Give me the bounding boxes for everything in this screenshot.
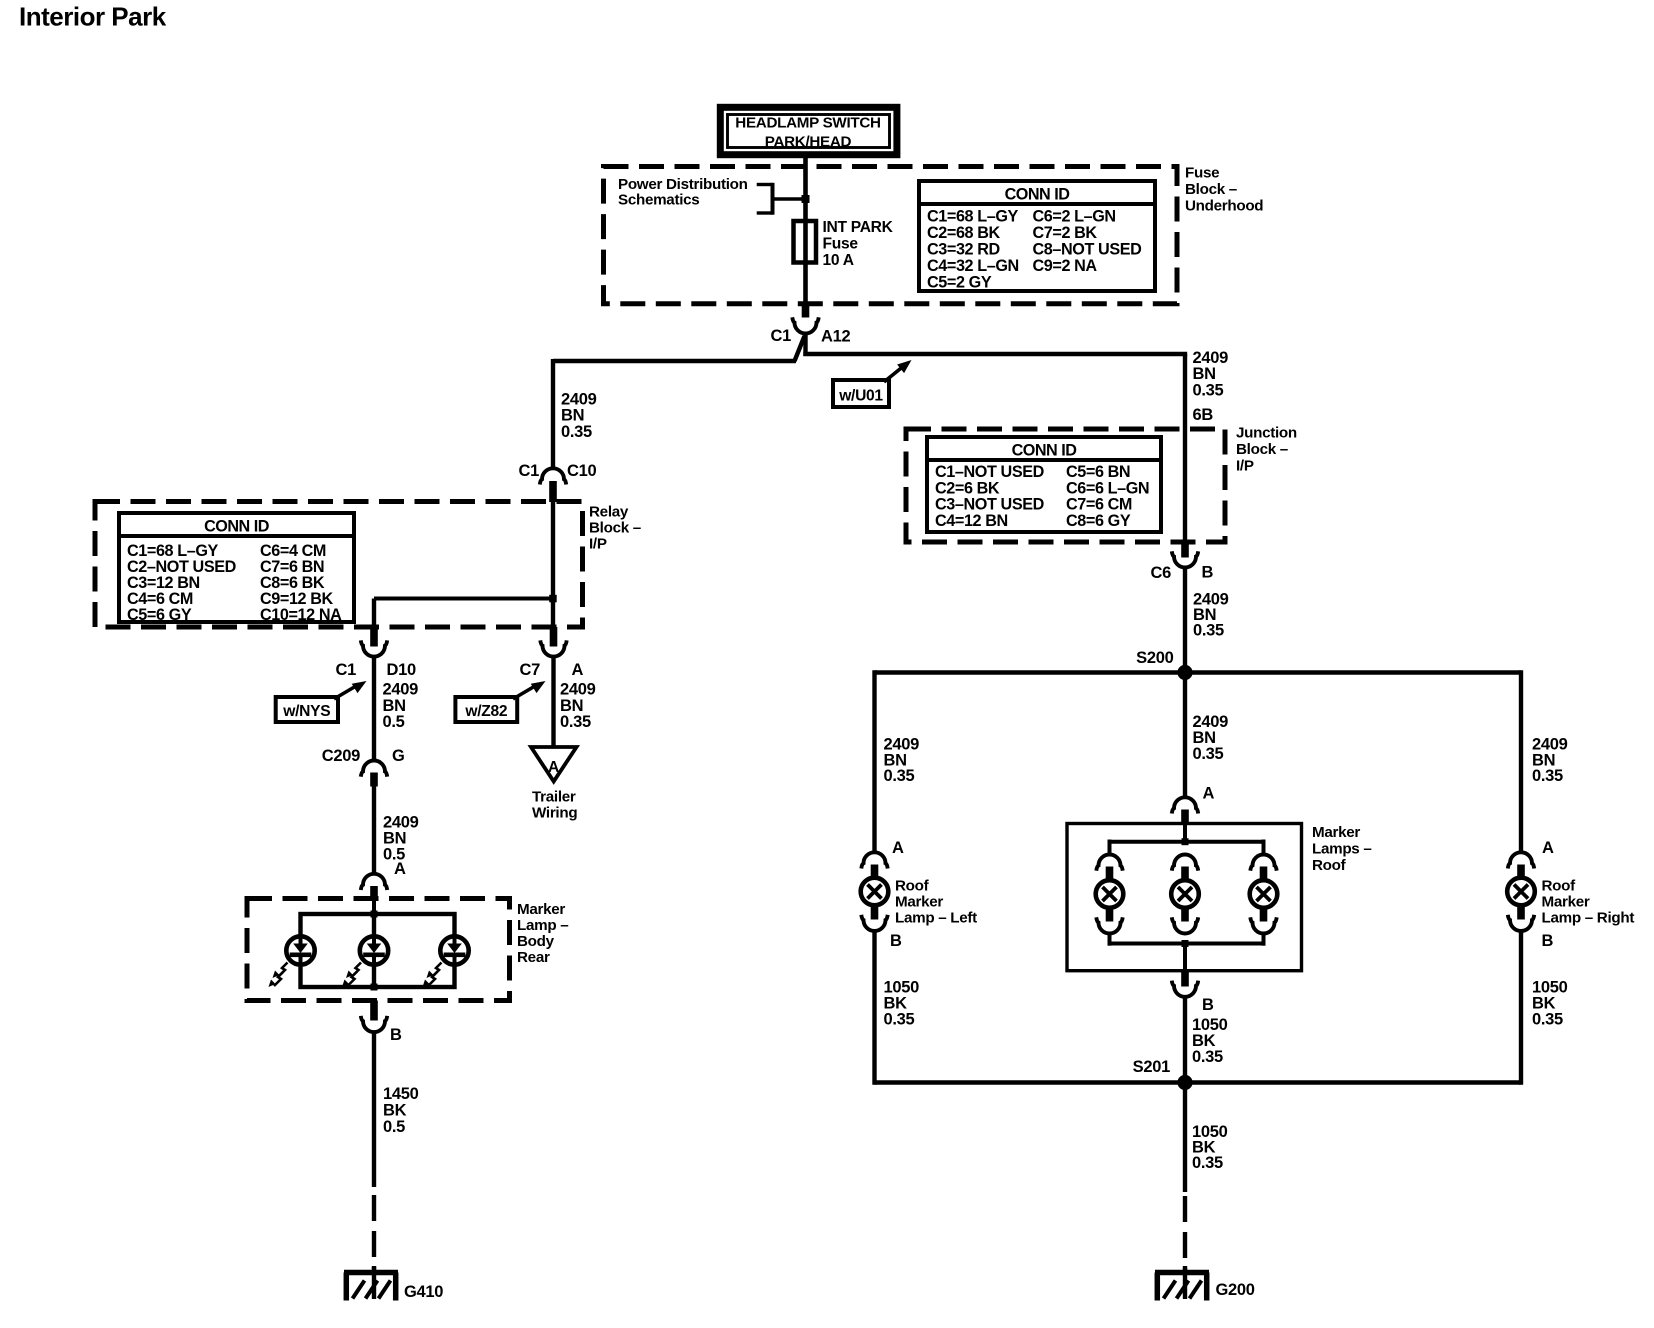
wire: S201 to ground lead (1183, 1083, 1187, 1193)
svg-text:I/P: I/P (1236, 458, 1254, 475)
wire: left roof lamp to S201 bus (872, 931, 876, 1085)
node: body rear bottom junction (371, 984, 378, 991)
wire label 2409 BN 0.35 (right roof branch) (1532, 736, 1568, 786)
connector B (body rear, socket arc) (361, 1016, 402, 1044)
wire: dashed ground lead (G200) (1183, 1196, 1187, 1271)
svg-text:Block –: Block – (1236, 441, 1288, 458)
wire label 2409 BN 0.35 (A12 to junction block) (1193, 349, 1229, 400)
wire: C6/B to S200 (1183, 568, 1187, 674)
svg-text:PARK/HEAD: PARK/HEAD (765, 134, 852, 151)
svg-text:C2=6 BK: C2=6 BK (935, 479, 1000, 497)
svg-text:0.35: 0.35 (1193, 745, 1224, 763)
svg-text:Power Distribution: Power Distribution (618, 176, 748, 193)
svg-text:Marker: Marker (1542, 894, 1590, 911)
svg-text:0.35: 0.35 (1193, 622, 1224, 640)
svg-text:HEADLAMP SWITCH: HEADLAMP SWITCH (735, 115, 880, 132)
svg-text:0.5: 0.5 (383, 1118, 405, 1136)
svg-text:Fuse: Fuse (1185, 165, 1219, 182)
svg-text:0.35: 0.35 (884, 1011, 915, 1029)
svg-text:C9=2 NA: C9=2 NA (1033, 257, 1098, 275)
svg-text:CONN ID: CONN ID (1012, 442, 1078, 460)
svg-text:w/Z82: w/Z82 (464, 703, 507, 720)
wire label 1050 BK 0.35 (left) (884, 979, 920, 1029)
wire label 2409 BN 0.35 (middle branch) (1193, 713, 1229, 763)
connector B (marker lamps roof, pin stub) (1181, 971, 1189, 987)
splice S200 (1136, 649, 1192, 680)
svg-text:A: A (1542, 839, 1554, 857)
svg-text:Wiring: Wiring (532, 805, 577, 822)
svg-text:BK: BK (383, 1102, 407, 1120)
connector A (marker lamps roof) (1172, 785, 1215, 825)
svg-text:C5=6 GY: C5=6 GY (127, 606, 192, 624)
svg-text:0.35: 0.35 (561, 423, 592, 441)
svg-text:S200: S200 (1136, 649, 1173, 667)
relay block - I/P (dashed box) (95, 502, 583, 628)
label: Relay Block - I/P (589, 504, 641, 553)
svg-text:C1: C1 (771, 327, 792, 345)
svg-text:Underhood: Underhood (1185, 198, 1263, 215)
svg-text:C5=2 GY: C5=2 GY (927, 273, 992, 291)
svg-text:0.35: 0.35 (1532, 1011, 1563, 1029)
wire: body rear internal bus rectangle (301, 900, 455, 988)
svg-text:A12: A12 (821, 328, 850, 346)
label: Marker Lamps - Roof (1312, 824, 1372, 874)
svg-text:A: A (572, 661, 584, 679)
svg-text:D10: D10 (387, 661, 416, 679)
svg-text:Junction: Junction (1236, 425, 1297, 442)
svg-text:BN: BN (1193, 365, 1216, 383)
svg-text:Block –: Block – (1185, 181, 1237, 198)
svg-text:B: B (1542, 932, 1554, 950)
pin label 6B (1193, 406, 1214, 424)
wire: C7/A to trailer wiring (551, 657, 555, 748)
lamp: marker lamps roof #1 (connector arcs + bulb) (1096, 855, 1124, 934)
svg-text:G410: G410 (404, 1283, 443, 1301)
wire: relay block internal split (374, 502, 553, 627)
svg-text:C8=6 GY: C8=6 GY (1066, 512, 1131, 530)
svg-text:Marker: Marker (895, 894, 943, 911)
wire: right roof lamp to S201 bus (1519, 931, 1523, 1085)
svg-text:Marker: Marker (1312, 824, 1360, 841)
wire: dashed ground lead (G410) (372, 1195, 376, 1271)
lamp: roof marker lamp - left (861, 878, 977, 927)
svg-text:Body: Body (517, 933, 555, 950)
wire: roof box B to S201 (1183, 997, 1187, 1083)
label: Fuse Block - Underhood (1185, 165, 1263, 215)
splice S201 (1133, 1058, 1193, 1090)
svg-text:C209: C209 (322, 747, 360, 765)
wire: right horizontal to junction block branch (803, 354, 1187, 429)
wire: C209 to marker lamp A (372, 787, 376, 875)
connector A (marker lamp body rear) (361, 860, 406, 900)
fuse: INT PARK Fuse 10 A (794, 219, 894, 303)
svg-text:A: A (892, 839, 904, 857)
svg-text:C6=6 L–GN: C6=6 L–GN (1066, 479, 1149, 497)
label: Junction Block - I/P (1236, 425, 1297, 475)
wire: D10 to C209 (372, 657, 376, 761)
svg-text:2409: 2409 (560, 681, 596, 699)
svg-text:10 A: 10 A (823, 252, 854, 269)
reference: Power Distribution Schematics (618, 176, 803, 215)
svg-text:S201: S201 (1133, 1058, 1170, 1076)
option arrow w/U01 (833, 356, 915, 407)
svg-text:Lamp –: Lamp – (517, 917, 568, 934)
svg-text:A: A (548, 759, 559, 776)
svg-text:w/U01: w/U01 (838, 388, 883, 405)
connector C6 / B (pin stub) (1181, 542, 1189, 558)
connector C209 / G (socket arc) (322, 747, 405, 777)
svg-text:C6=2 L–GN: C6=2 L–GN (1033, 208, 1116, 226)
connector C1 / C10 (pin stub) (549, 481, 557, 502)
title "Interior Park" (19, 2, 167, 32)
wire label 2409 BN 0.35 (to relay block) (561, 391, 597, 442)
svg-text:I/P: I/P (589, 536, 607, 553)
svg-text:Interior Park: Interior Park (19, 2, 167, 32)
wire: diagonal + left horizontal to relay branch (553, 336, 805, 469)
junction block - I/P (dashed box) (906, 429, 1225, 542)
connector B (marker lamps roof, socket arc) (1172, 981, 1214, 1014)
svg-text:2409: 2409 (383, 681, 419, 699)
svg-text:Rear: Rear (517, 949, 550, 966)
svg-text:0.35: 0.35 (1193, 382, 1224, 400)
option arrow w/NYS (276, 676, 370, 722)
wire: headlamp switch to fuse (803, 158, 808, 221)
svg-text:C4=32 L–GN: C4=32 L–GN (927, 257, 1019, 275)
svg-text:C3–NOT USED: C3–NOT USED (935, 496, 1045, 514)
svg-text:INT PARK: INT PARK (823, 219, 894, 236)
svg-text:Roof: Roof (1542, 878, 1577, 895)
svg-text:A: A (1203, 785, 1215, 803)
connector C6 / B (socket arc) (1151, 551, 1214, 582)
svg-text:Lamps –: Lamps – (1312, 841, 1372, 858)
svg-text:CONN ID: CONN ID (1005, 186, 1071, 204)
svg-text:0.35: 0.35 (1192, 1048, 1223, 1066)
svg-text:Roof: Roof (1312, 857, 1347, 874)
node: junction dot at feed wire (802, 195, 810, 203)
label: Marker Lamp - Body Rear (517, 901, 568, 966)
svg-text:Relay: Relay (589, 504, 629, 521)
svg-text:C7=2 BK: C7=2 BK (1033, 224, 1098, 242)
svg-text:C2=68 BK: C2=68 BK (927, 224, 1001, 242)
node: roof box bottom bus junction (1182, 940, 1189, 947)
svg-text:B: B (890, 932, 902, 950)
svg-text:C4=12 BN: C4=12 BN (935, 512, 1008, 530)
svg-text:B: B (1202, 996, 1214, 1014)
svg-text:Lamp – Left: Lamp – Left (895, 910, 977, 927)
svg-text:0.35: 0.35 (884, 767, 915, 785)
svg-text:C1=68 L–GY: C1=68 L–GY (927, 208, 1019, 226)
lamp: marker lamp body rear LED #2 (342, 936, 388, 987)
connector C1 / C10 (socket arc) (519, 462, 597, 485)
wire: body rear B to ground lead (372, 1032, 376, 1187)
lamp: roof marker lamp - right (1507, 878, 1634, 927)
wire label 2409 BN 0.5 (to body rear lamp) (383, 814, 419, 864)
svg-text:0.35: 0.35 (1192, 1154, 1223, 1172)
wire: S201 collector bus (875, 1080, 1522, 1084)
svg-text:Schematics: Schematics (618, 192, 699, 209)
node: body rear top junction (371, 911, 378, 918)
wire label 2409 BN 0.35 (C7 branch) (560, 681, 596, 732)
svg-text:A: A (394, 860, 406, 878)
svg-text:C1: C1 (519, 462, 540, 480)
svg-text:C3=32 RD: C3=32 RD (927, 241, 1001, 259)
svg-text:G: G (392, 747, 405, 765)
marker lamp - body rear (dashed box) (247, 899, 510, 1001)
connector C1 / A12 (pin stub) (802, 302, 810, 318)
lamp: marker lamps roof #3 (connector arcs + bulb) (1250, 855, 1278, 934)
connector B (roof marker lamp right) (1508, 905, 1554, 950)
component box: HEADLAMP SWITCH PARK/HEAD (720, 107, 897, 154)
svg-text:CONN ID: CONN ID (204, 518, 270, 536)
option arrow w/Z82 (455, 676, 548, 722)
connector A (roof marker lamp left) (861, 839, 904, 879)
off-page reference: Trailer Wiring (triangle A) (531, 747, 577, 822)
wire label 1450 BK 0.5 (383, 1085, 419, 1136)
lamp: marker lamp body rear LED #1 (269, 936, 315, 987)
table: CONN ID (fuse block underhood) (919, 181, 1155, 291)
svg-text:C7=6 CM: C7=6 CM (1066, 496, 1132, 514)
connector B (body rear, pin stub) (370, 1001, 378, 1021)
wire label 2409 BN 0.35 (left roof branch) (884, 736, 920, 786)
lamp: marker lamp body rear LED #3 (423, 936, 469, 987)
svg-text:C1–NOT USED: C1–NOT USED (935, 463, 1045, 481)
svg-text:Marker: Marker (517, 901, 565, 918)
node: roof box top bus junction (1182, 838, 1189, 845)
wire: S200 to marker lamps roof (1183, 673, 1187, 798)
svg-text:B: B (390, 1026, 402, 1044)
svg-text:C8–NOT USED: C8–NOT USED (1033, 241, 1143, 259)
connector C7 / A (pin stub) (550, 627, 558, 647)
fuse block - underhood (dashed box) (604, 167, 1178, 304)
svg-text:G200: G200 (1216, 1281, 1255, 1299)
svg-text:6B: 6B (1193, 406, 1214, 424)
svg-text:0.35: 0.35 (1532, 767, 1563, 785)
node: relay internal junction (549, 595, 557, 603)
svg-text:BN: BN (561, 407, 584, 425)
svg-text:Lamp – Right: Lamp – Right (1542, 910, 1635, 927)
svg-text:B: B (1202, 564, 1214, 582)
connector C1 / D10 (pin stub) (370, 627, 378, 647)
wire: S200 distribution bus (875, 670, 1522, 852)
svg-text:Trailer: Trailer (532, 789, 576, 806)
ground G410 (344, 1266, 443, 1301)
svg-text:0.35: 0.35 (560, 713, 591, 731)
svg-text:w/NYS: w/NYS (282, 703, 330, 720)
wire label 1050 BK 0.35 (right) (1532, 979, 1568, 1029)
table: CONN ID (junction block) (927, 437, 1161, 532)
wire: roof box internal buses (1110, 824, 1264, 971)
svg-text:C1: C1 (336, 661, 357, 679)
wire label 2409 BN 0.35 (to S200) (1193, 591, 1229, 640)
connector A (roof marker lamp right) (1508, 839, 1554, 879)
connector C1 / D10 (socket arc) (336, 640, 416, 679)
wire: A12 down to branch corner (803, 334, 807, 357)
wire: through junction block (1183, 429, 1187, 541)
svg-text:C6: C6 (1151, 564, 1172, 582)
svg-text:Roof: Roof (895, 878, 930, 895)
ground G200 (1155, 1266, 1255, 1301)
svg-text:Block –: Block – (589, 520, 641, 537)
table: CONN ID (relay block) (119, 513, 354, 624)
svg-text:C5=6 BN: C5=6 BN (1066, 463, 1130, 481)
svg-text:Fuse: Fuse (823, 236, 859, 253)
svg-text:1450: 1450 (383, 1085, 419, 1103)
connector B (roof marker lamp left) (861, 905, 902, 950)
wire label 2409 BN 0.5 (D10 branch) (383, 681, 419, 732)
svg-text:0.5: 0.5 (383, 713, 405, 731)
wire label 1050 BK 0.35 (to G200) (1192, 1123, 1228, 1172)
svg-text:C10=12 NA: C10=12 NA (260, 606, 342, 624)
svg-text:C7: C7 (520, 661, 541, 679)
connector C7 / A (socket arc) (520, 640, 584, 679)
lamp: marker lamps roof #2 (connector arcs + bulb) (1171, 855, 1199, 934)
component box: Marker Lamps - Roof (1067, 824, 1302, 971)
svg-text:C10: C10 (567, 462, 596, 480)
wire label 1050 BK 0.35 (middle) (1192, 1016, 1228, 1066)
connector C209 / G (pin stub) (370, 773, 378, 787)
connector C1 / A12 (socket arc) (771, 317, 851, 345)
